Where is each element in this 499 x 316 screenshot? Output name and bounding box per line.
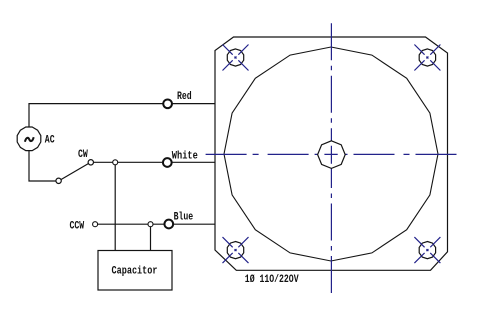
mount hole bottom-left xyxy=(223,237,249,263)
svg-text:AC: AC xyxy=(45,135,55,147)
mount hole top-right xyxy=(414,45,440,71)
terminal White xyxy=(163,158,172,167)
svg-text:1Ø 11O/22OV: 1Ø 11O/22OV xyxy=(245,274,299,286)
node: White junction xyxy=(113,160,118,165)
wire: AC bottom to switch pole xyxy=(29,151,56,181)
wire: CW contact to White terminal to motor xyxy=(93,161,216,163)
mount hole bottom-right xyxy=(414,237,440,263)
terminal Red xyxy=(163,99,172,108)
svg-text:Blue: Blue xyxy=(174,212,194,224)
svg-text:Red: Red xyxy=(177,91,192,103)
wire: White junction down to capacitor xyxy=(114,165,116,251)
mount hole top-left xyxy=(223,45,249,71)
terminal Blue xyxy=(164,220,173,229)
svg-text:Capacitor: Capacitor xyxy=(112,266,158,278)
switch CCW contact xyxy=(93,222,98,227)
switch pole contact xyxy=(56,178,61,183)
AC source V1 xyxy=(17,127,41,151)
centerline horizontal xyxy=(206,153,332,155)
svg-text:CW: CW xyxy=(78,149,88,161)
capacitor C1 box xyxy=(98,251,172,291)
wire: AC top to Red terminal to motor xyxy=(29,104,217,127)
wire: CCW contact to Blue terminal to motor xyxy=(98,223,217,225)
centerline vertical xyxy=(330,23,332,154)
switch CW contact xyxy=(88,160,93,165)
motor housing outline xyxy=(215,37,448,270)
svg-text:White: White xyxy=(172,150,198,162)
node: Blue junction xyxy=(148,222,153,227)
shaft polygon xyxy=(318,141,346,169)
wire: Blue junction down to capacitor xyxy=(150,227,152,251)
svg-text:CCW: CCW xyxy=(70,220,85,232)
wire: switch blade xyxy=(61,164,89,180)
motor stator circle xyxy=(224,47,438,261)
